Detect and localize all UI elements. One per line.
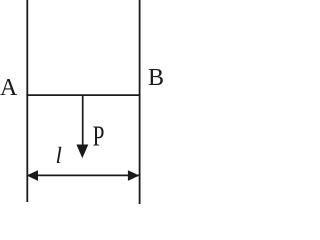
force arrow P shaft bbox=[82, 95, 84, 146]
svg-text:A: A bbox=[0, 75, 18, 101]
svg-text:P: P bbox=[93, 122, 105, 153]
svg-text:B: B bbox=[148, 65, 164, 91]
dimension arrowhead right bbox=[128, 170, 139, 181]
svg-text:l: l bbox=[56, 143, 62, 168]
dimension arrowhead left bbox=[27, 170, 38, 181]
right support line bbox=[139, 0, 141, 204]
beam AB bbox=[26, 94, 140, 96]
force arrow P head bbox=[76, 145, 88, 159]
left support line bbox=[26, 0, 28, 202]
dimension arrow shaft bbox=[28, 174, 139, 176]
